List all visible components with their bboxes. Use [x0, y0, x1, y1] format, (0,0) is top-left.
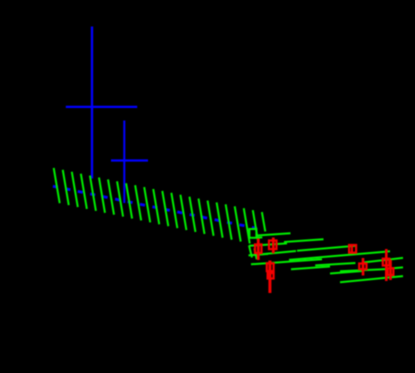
blue data point 1 vertical error bar [91, 27, 93, 179]
blue data point 2 horizontal error bar [111, 159, 148, 161]
red point G error bar [389, 260, 392, 280]
red point E error bar [362, 258, 365, 276]
red point C upper square [267, 263, 274, 271]
red point A error bar [257, 239, 260, 261]
blue dashed model line [53, 186, 257, 228]
red point D square [349, 245, 356, 253]
red point A square [255, 244, 262, 253]
red point E square [359, 264, 366, 270]
red point D error bar [351, 244, 353, 254]
green hatched uncertainty band [54, 168, 266, 259]
red point F error bar [385, 249, 388, 281]
blue data point 1 horizontal error bar [66, 106, 137, 108]
red point B error bar [272, 238, 275, 254]
red point G square [388, 268, 394, 275]
blue data point 2 vertical error bar [123, 121, 125, 204]
red point C lower square [268, 273, 274, 278]
red point F square [383, 259, 390, 266]
green open square marker [249, 229, 256, 238]
red point B square [269, 241, 277, 250]
green model line segments [249, 233, 404, 282]
red point C error bar [268, 261, 271, 294]
